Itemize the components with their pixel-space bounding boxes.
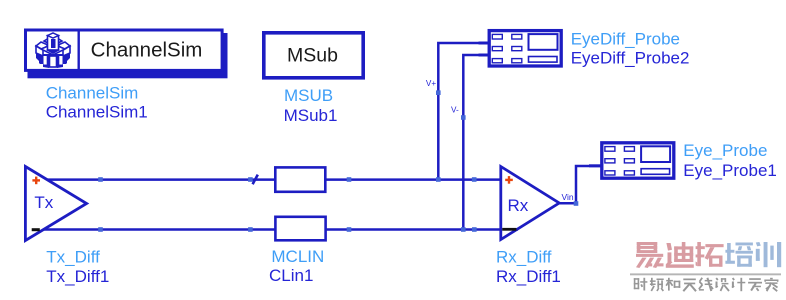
svg-text:ChannelSim: ChannelSim (46, 83, 139, 102)
svg-text:Tx_Diff1: Tx_Diff1 (46, 267, 109, 286)
svg-text:Rx_Diff1: Rx_Diff1 (496, 267, 561, 286)
svg-text:Tx: Tx (34, 193, 53, 212)
svg-text:CLin1: CLin1 (269, 266, 313, 285)
svg-text:EyeDiff_Probe: EyeDiff_Probe (571, 29, 680, 48)
svg-text:EyeDiff_Probe2: EyeDiff_Probe2 (571, 49, 690, 68)
svg-text:MSUB: MSUB (284, 86, 333, 105)
svg-text:Eye_Probe1: Eye_Probe1 (683, 161, 777, 180)
svg-text:Rx_Diff: Rx_Diff (496, 248, 552, 267)
svg-text:Rx: Rx (508, 196, 529, 215)
svg-text:Eye_Probe: Eye_Probe (683, 141, 767, 160)
svg-text:Vin: Vin (562, 192, 574, 202)
svg-text:MSub: MSub (287, 45, 338, 67)
svg-text:V-: V- (451, 105, 459, 114)
svg-text:Tx_Diff: Tx_Diff (46, 248, 100, 267)
svg-text:MSub1: MSub1 (284, 106, 338, 125)
svg-text:V+: V+ (426, 79, 436, 88)
svg-text:ChannelSim1: ChannelSim1 (46, 103, 148, 122)
svg-text:ChannelSim: ChannelSim (91, 39, 203, 62)
svg-text:MCLIN: MCLIN (271, 247, 324, 266)
